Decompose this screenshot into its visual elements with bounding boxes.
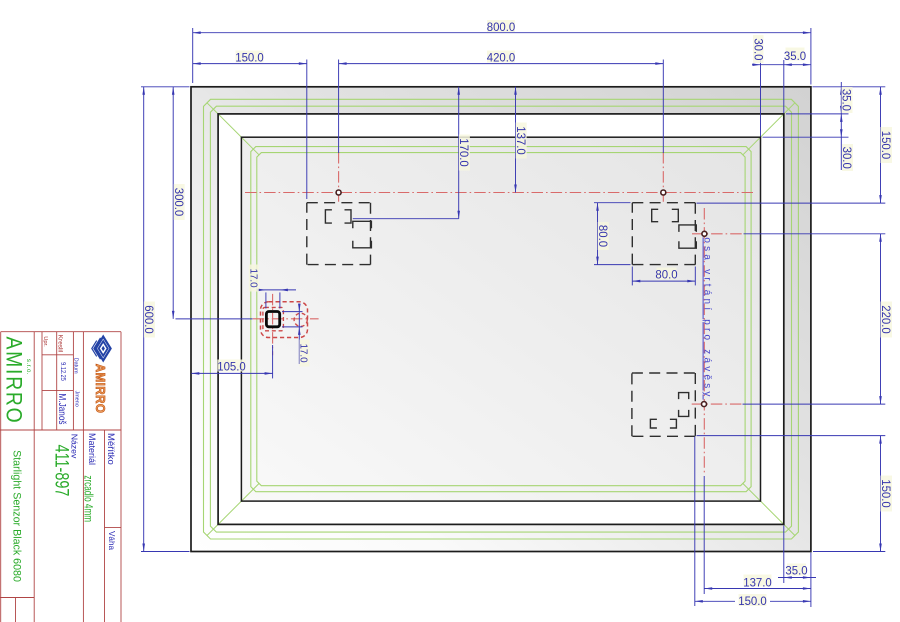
svg-text:Váha: Váha — [107, 531, 116, 551]
axis vertical mount B — [662, 152, 664, 202]
svg-text:30.0: 30.0 — [752, 38, 765, 61]
bevel corner diagonal bottom-right — [743, 484, 795, 536]
arrows 420.0 — [339, 62, 347, 65]
arrows 137.0 bottom — [704, 587, 712, 590]
svg-text:Starlight Senzor Black 6080: Starlight Senzor Black 6080 — [11, 450, 23, 582]
frame left edge — [0, 332, 2, 622]
mount plate B slot top — [652, 209, 679, 221]
svg-text:150.0: 150.0 — [879, 131, 892, 160]
bevel green line 1 — [204, 99, 799, 539]
svg-text:80.0: 80.0 — [596, 225, 609, 248]
dim 80.0 horizontal lines — [632, 280, 695, 282]
dim 150.0 top lines — [193, 63, 307, 65]
mirror inner edge — [241, 137, 760, 501]
mount plate A slot right — [353, 221, 372, 248]
svg-text:AMIRRO: AMIRRO — [1, 337, 25, 425]
hanger axis horizontal — [245, 192, 753, 194]
dim 600.0 lines — [143, 87, 145, 552]
dim 137.0 bottom lines — [704, 588, 811, 590]
dimension arrows — [142, 31, 881, 602]
dim 35.0 bottom lines — [778, 577, 816, 579]
mount plate C outline dashed — [632, 373, 695, 436]
svg-text:137.0: 137.0 — [514, 126, 527, 155]
svg-text:150.0: 150.0 — [235, 51, 264, 64]
mirror inner white band — [218, 114, 784, 525]
dim 137.0 vertical lines — [515, 87, 517, 193]
svg-text:170.0: 170.0 — [457, 138, 470, 167]
sensor axis horizontal — [253, 318, 319, 320]
frame bottom tick — [15, 598, 17, 622]
dim 170.0 lines — [458, 87, 460, 219]
arrows 137.0 vertical — [514, 87, 517, 95]
arrows 30.0 35.0 top-right — [753, 63, 761, 66]
arrows 600.0 — [142, 87, 145, 95]
svg-text:17.0: 17.0 — [248, 268, 259, 288]
dimensions blue — [141, 28, 885, 607]
arrows 80.0 vertical — [596, 203, 599, 211]
dim 150.0 bottom lines — [695, 600, 735, 602]
dim 150.0 right-top lines — [880, 87, 882, 203]
centerlines red — [245, 152, 753, 475]
osa vrtani pro zavesy axis — [703, 208, 705, 475]
svg-text:35.0: 35.0 — [839, 89, 852, 112]
dim 220.0 lines — [880, 234, 882, 404]
mount plate C slot right — [679, 393, 689, 417]
dim 80.0 vertical lines — [597, 203, 599, 265]
drill hole circles — [336, 190, 707, 407]
axis segment at bottom hinge hole — [692, 403, 743, 405]
svg-text:80.0: 80.0 — [655, 268, 678, 281]
frame row line kreslil — [42, 354, 73, 356]
mount plate B slot right — [679, 225, 696, 248]
svg-text:Měřítko: Měřítko — [105, 433, 116, 465]
arrows 150.0 bottom — [695, 600, 703, 603]
frame starlight bottom line — [0, 597, 34, 599]
svg-text:Datum: Datum — [73, 358, 79, 374]
svg-text:105.0: 105.0 — [217, 360, 246, 373]
svg-text:Upr.: Upr. — [42, 336, 48, 347]
bevel green line 4 — [257, 153, 745, 486]
arrows 300.0 — [172, 87, 175, 95]
sensor window bold square — [266, 312, 279, 327]
svg-text:420.0: 420.0 — [487, 51, 516, 64]
axis segment at top hinge hole — [692, 233, 744, 235]
dim 105.0 lines — [191, 372, 272, 374]
hinge hole bottom — [702, 402, 707, 407]
title block — [0, 332, 121, 622]
arrows 80.0 horizontal — [632, 280, 640, 283]
svg-text:osa vrtání pro závěsy: osa vrtání pro závěsy — [702, 237, 713, 399]
arrows 35.0 bottom — [784, 576, 792, 579]
arrows 17.0 top — [258, 289, 266, 292]
arrows 150.0 right-bottom — [879, 436, 882, 444]
bevel corner diagonal top-left — [207, 103, 259, 155]
arrows 220.0 — [879, 234, 882, 242]
frame right edge — [120, 332, 122, 622]
frame col line 2 — [41, 332, 43, 430]
frame col line 4 — [72, 332, 74, 430]
sensor axis vertical — [272, 294, 274, 355]
svg-text:AMIRRO: AMIRRO — [93, 364, 108, 414]
svg-text:17.0: 17.0 — [298, 343, 309, 363]
dim 800.0 lines — [193, 32, 811, 34]
svg-text:Materiál: Materiál — [87, 433, 97, 465]
svg-text:300.0: 300.0 — [172, 188, 185, 217]
sensor inner frame dashed red — [263, 307, 284, 330]
dimension texts — [142, 21, 892, 609]
arrows 170.0 — [457, 87, 460, 95]
axis vertical mount A — [338, 152, 340, 202]
bevel green line 2 — [210, 106, 791, 532]
frame vaha line — [105, 527, 122, 529]
svg-text:411-897: 411-897 — [51, 445, 72, 497]
mount plate B outline dashed — [632, 203, 695, 265]
dim 35.0 30.0 right-corner lines — [840, 82, 842, 170]
frame col line 5 — [82, 332, 84, 622]
svg-text:150.0: 150.0 — [879, 479, 892, 508]
svg-text:Jmeno: Jmeno — [74, 391, 80, 407]
arrows 150.0 right-top — [879, 87, 882, 95]
dim 150.0 right-bottom lines — [880, 436, 882, 552]
svg-text:9.12.25: 9.12.25 — [59, 362, 67, 381]
arrows 35.0 30.0 right-corner — [840, 87, 843, 95]
mirror outer face fill — [191, 87, 811, 552]
svg-text:zrcadlo 4mm: zrcadlo 4mm — [81, 475, 94, 522]
drill hole mount A — [336, 190, 341, 195]
frame section line — [0, 429, 121, 431]
mirror body — [191, 87, 811, 552]
mount plate A slot top — [325, 210, 351, 223]
bevel green line 3 — [251, 147, 751, 492]
svg-text:600.0: 600.0 — [142, 305, 155, 334]
dim 300.0 lines — [172, 87, 174, 319]
svg-text:800.0: 800.0 — [487, 21, 516, 34]
svg-text:M.Janoš: M.Janoš — [57, 394, 69, 425]
arrows 150.0 top — [193, 62, 201, 65]
AMIRRO logo diamond — [92, 337, 111, 361]
dim 30.0 35.0 top-right lines — [752, 64, 811, 66]
sensor — [261, 302, 308, 338]
dimension text halos — [144, 20, 892, 606]
arrows 800.0 — [193, 31, 201, 34]
bevel corner diagonal top-right — [743, 103, 795, 155]
mirror outer edge — [191, 87, 811, 552]
sensor housing outline dashed red — [261, 302, 308, 338]
svg-text:s.r.o.: s.r.o. — [25, 359, 32, 375]
hinge hole top — [702, 231, 707, 236]
frame col line 3 — [56, 332, 58, 430]
dim 17.0 right sensor lines — [298, 304, 300, 365]
arrows 105.0 — [191, 372, 199, 375]
arrows 17.0 right — [298, 304, 301, 312]
svg-text:Kreslil: Kreslil — [57, 335, 64, 352]
sensor cable hole dashed red — [294, 313, 307, 326]
mount plates — [307, 203, 697, 437]
mount plate A outline dashed — [307, 203, 371, 265]
dim 17.0 top sensor lines — [257, 289, 297, 291]
svg-text:35.0: 35.0 — [784, 50, 807, 63]
drill hole mount B — [661, 190, 666, 195]
dim 420.0 lines — [339, 63, 664, 65]
frame col line 6 — [104, 430, 106, 622]
frame top edge — [1, 331, 121, 333]
svg-text:137.0: 137.0 — [743, 576, 772, 589]
mirror inner face fill — [241, 137, 760, 501]
mirror middle edge — [218, 114, 784, 525]
frame row line datum — [42, 389, 73, 391]
frame col line 1 — [33, 332, 35, 622]
svg-text:30.0: 30.0 — [840, 147, 853, 170]
svg-text:35.0: 35.0 — [785, 564, 808, 577]
bevel corner diagonal bottom-left — [207, 484, 259, 536]
svg-text:150.0: 150.0 — [738, 595, 767, 608]
svg-text:220.0: 220.0 — [879, 305, 892, 334]
mount plate C slot bottom — [650, 419, 676, 428]
